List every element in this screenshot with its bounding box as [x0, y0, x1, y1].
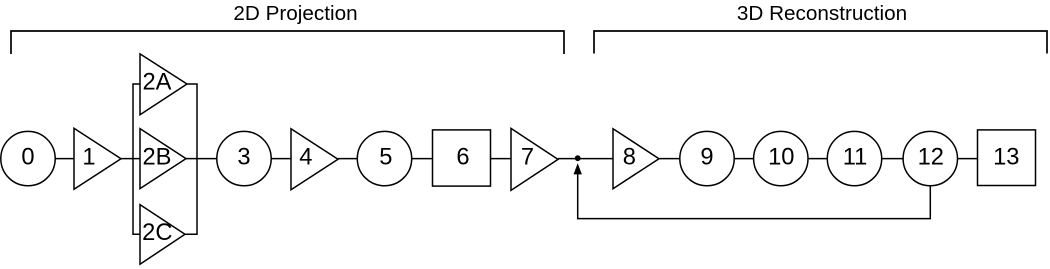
- svg-text:9: 9: [700, 145, 713, 171]
- svg-text:2A: 2A: [143, 70, 172, 96]
- svg-text:10: 10: [768, 145, 794, 171]
- svg-text:11: 11: [843, 145, 868, 171]
- wire 9-10: [734, 158, 753, 160]
- wire 12-13: [958, 158, 978, 160]
- node 0 (circle): [1, 131, 55, 185]
- right bus for 2A/2B/2C: [185, 84, 197, 234]
- svg-text:0: 0: [21, 145, 34, 171]
- bracket 3D Reconstruction: [594, 31, 1047, 54]
- wire 8-9: [659, 158, 680, 160]
- svg-text:4: 4: [299, 145, 312, 171]
- wire 11-12: [882, 158, 903, 160]
- svg-text:2C: 2C: [142, 220, 172, 246]
- node 3 (circle): [217, 131, 271, 185]
- svg-text:2D Projection: 2D Projection: [233, 2, 357, 25]
- svg-text:8: 8: [623, 145, 636, 171]
- wire 1 to 2B: [121, 158, 140, 160]
- svg-text:6: 6: [456, 145, 469, 171]
- node 8 (triangle): [613, 129, 659, 189]
- wire 10-11: [808, 158, 827, 160]
- wire 2B to 3: [186, 158, 217, 160]
- bracket 2D Projection: [11, 31, 564, 54]
- wire 4-5: [338, 158, 357, 160]
- svg-text:5: 5: [379, 145, 392, 171]
- svg-text:12: 12: [918, 145, 944, 171]
- node 5 (circle): [357, 131, 411, 185]
- svg-text:7: 7: [521, 145, 534, 171]
- svg-text:13: 13: [993, 145, 1019, 171]
- node 12 (circle): [903, 131, 957, 185]
- wire 3-4: [271, 158, 291, 160]
- svg-text:3D Reconstruction: 3D Reconstruction: [737, 2, 907, 25]
- node 11 (circle): [827, 131, 881, 185]
- node 2B (triangle): [140, 129, 186, 189]
- svg-text:1: 1: [82, 145, 95, 171]
- wire 0-1: [55, 158, 74, 160]
- node 4 (triangle): [291, 129, 338, 190]
- node 13 (square): [978, 130, 1036, 186]
- svg-text:3: 3: [237, 145, 250, 171]
- node 2C (triangle): [140, 205, 185, 265]
- wire 7-8: [558, 158, 613, 160]
- wire 5-6: [412, 158, 433, 160]
- left bus for 2A/2B/2C: [133, 84, 140, 234]
- node 1 (triangle): [74, 128, 121, 189]
- svg-text:2B: 2B: [143, 145, 172, 171]
- node 6 (square): [433, 130, 491, 186]
- node 7 (triangle): [511, 128, 558, 190]
- node 9 (circle): [680, 131, 734, 185]
- junction dot: [575, 155, 581, 161]
- wire 6-7: [491, 158, 512, 160]
- feedback wire from 12: [578, 174, 931, 219]
- node 10 (circle): [754, 131, 808, 185]
- feedback arrowhead: [574, 163, 582, 174]
- node 2A (triangle): [140, 54, 187, 115]
